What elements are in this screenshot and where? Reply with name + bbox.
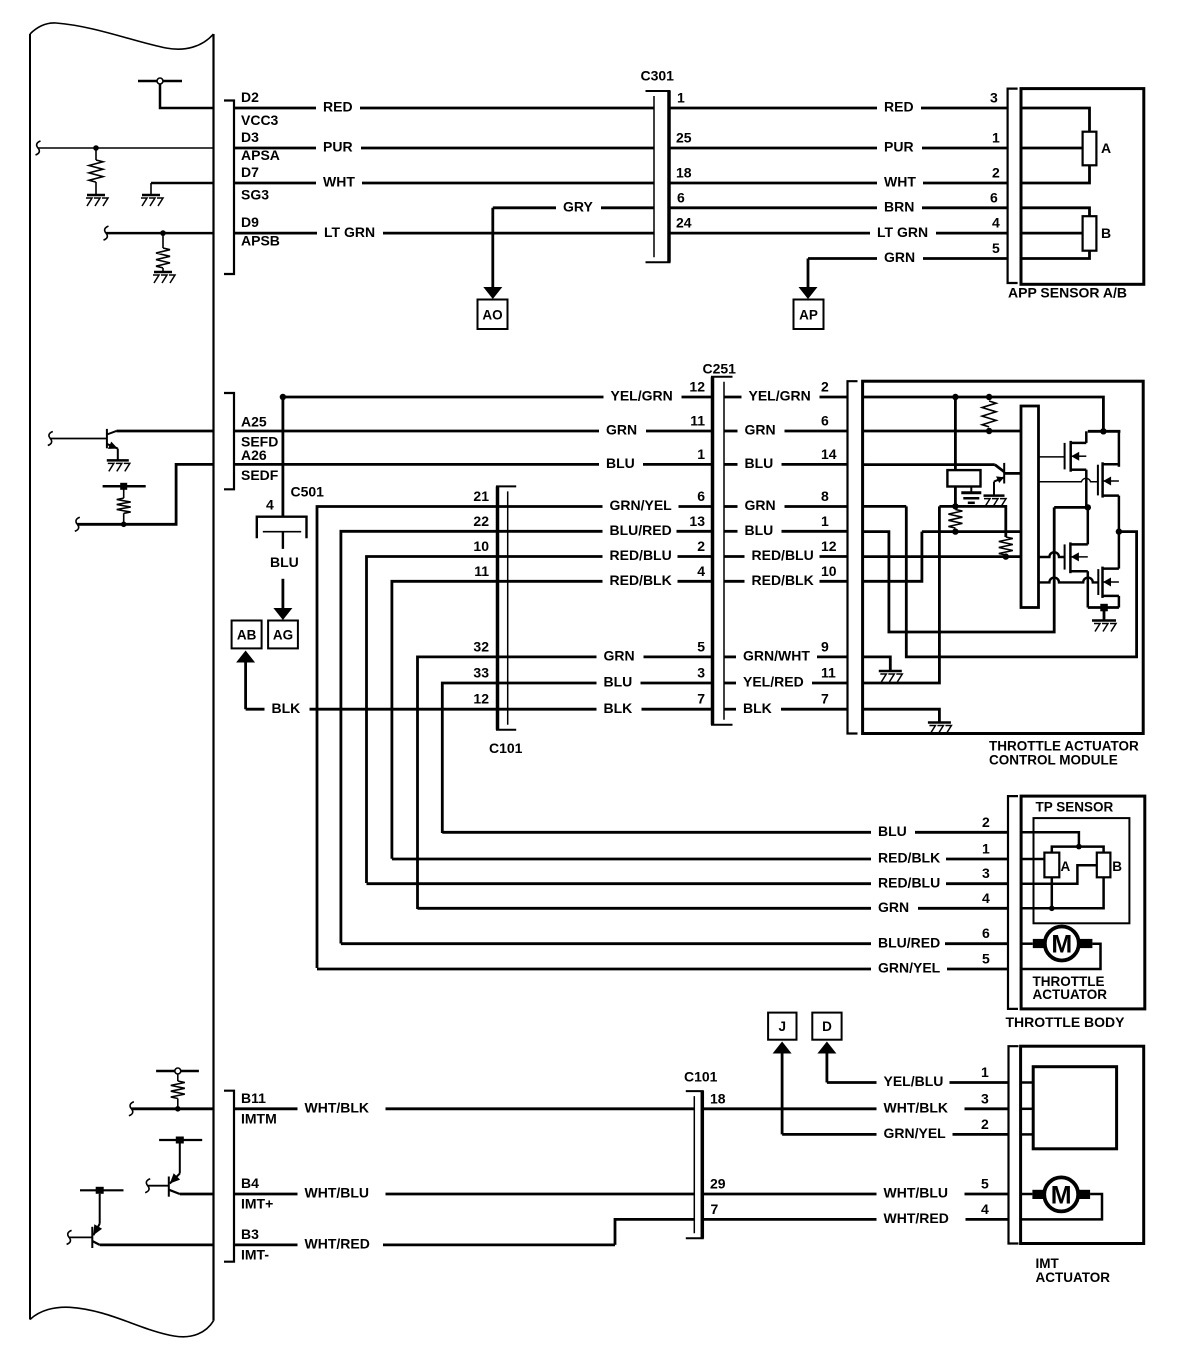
wire RED/BLK row link up to BLU right segment: [863, 532, 922, 582]
H-bridge bottom source bar: [1088, 606, 1119, 609]
wire break at APSB internal wire: [104, 226, 109, 240]
node junction source bar to ground: [1100, 604, 1108, 612]
svg-text:CONTROL MODULE: CONTROL MODULE: [989, 753, 1118, 768]
wire PUR: D3 to C301 pin 25: [234, 147, 316, 150]
svg-text:1: 1: [992, 130, 1000, 146]
wire GRN/YEL C101-21 to C251 pin 6: [508, 505, 603, 508]
throttle actuator motor: [1045, 927, 1079, 961]
arrowhead to AO: [483, 287, 502, 299]
connector bracket IMT actuator: [1009, 1046, 1019, 1243]
svg-text:BLK: BLK: [272, 700, 301, 716]
svg-text:2: 2: [821, 379, 829, 395]
arrow BLU wire down to AG: [281, 579, 284, 609]
wire GRN/YEL J to IMT pin 2: [782, 1133, 876, 1136]
resistor pull-down on APSB: [162, 233, 164, 248]
svg-text:4: 4: [266, 497, 274, 513]
svg-text:1: 1: [981, 1064, 989, 1080]
connector C101 (bottom): [686, 1090, 704, 1092]
wire RED/BLU C101-10 to C251 pin 2: [508, 555, 603, 558]
connector C101 (middle): [496, 485, 516, 487]
node junction motor left (M1 source / M3 drain): [1085, 504, 1091, 510]
svg-text:7: 7: [821, 691, 829, 707]
svg-text:BLU: BLU: [604, 674, 633, 690]
wire GRY: to C301 pin 6 and down to AO: [493, 206, 556, 209]
connector bracket ECM pins D2 D3 D7 D9: [224, 101, 234, 275]
IMT actuator box: [1021, 1046, 1144, 1243]
wire APSA internal (pin D3): [38, 147, 214, 149]
wire TP pin2 to pot tops: [1021, 832, 1079, 846]
svg-text:BLK: BLK: [604, 700, 633, 716]
resistor R3: [999, 537, 1013, 555]
wire break at IMTM internal wire: [129, 1102, 134, 1116]
svg-text:WHT/BLU: WHT/BLU: [305, 1185, 370, 1201]
wire TACM pin8 row into module: [863, 505, 907, 508]
node junction pin2 rail at resistor R1: [986, 394, 992, 400]
svg-text:BLU: BLU: [745, 522, 774, 538]
svg-text:6: 6: [677, 189, 685, 205]
svg-text:11: 11: [474, 563, 489, 579]
svg-text:IMTM: IMTM: [241, 1110, 277, 1126]
svg-text:18: 18: [710, 1090, 726, 1106]
wire APP pin 1 to potentiometer A wiper: [1021, 147, 1083, 150]
connector bracket throttle body: [1008, 796, 1018, 1009]
connector C251: [711, 376, 733, 378]
wire RED/BLU to TP sensor pin 3: [367, 882, 872, 885]
wire IMT pin5 to motor: [1021, 1193, 1033, 1196]
MOSFET M2 (high side right): [1097, 465, 1099, 496]
destination box AG: [268, 621, 298, 649]
svg-text:A26: A26: [241, 447, 267, 463]
svg-text:RED/BLK: RED/BLK: [752, 572, 814, 588]
svg-text:4: 4: [981, 1201, 989, 1217]
wire YEL/GRN from C501 node to C251 pin 12: [280, 394, 286, 400]
svg-text:D2: D2: [241, 89, 259, 105]
svg-text:ACTUATOR: ACTUATOR: [1036, 1270, 1111, 1285]
svg-text:B3: B3: [241, 1226, 259, 1242]
wire break at SEDF internal wire: [75, 517, 80, 531]
wire GRN C101 pin 32 corner down: [418, 657, 508, 909]
svg-text:C301: C301: [641, 68, 675, 84]
wire TACM pin14 BLU row to transistor base: [863, 463, 995, 466]
svg-text:12: 12: [473, 691, 489, 707]
node junction pin2 rail at predriver: [952, 394, 958, 400]
wire GRN to TP sensor pin 4: [418, 907, 872, 910]
wire APP pin 5 to potentiometer B bottom: [1021, 251, 1090, 259]
svg-text:C101: C101: [684, 1069, 718, 1085]
svg-text:5: 5: [992, 240, 1000, 256]
svg-text:5: 5: [982, 951, 990, 967]
svg-text:VCC3: VCC3: [241, 112, 279, 128]
svg-text:GRY: GRY: [563, 199, 593, 215]
wire TACM pin2 power rail to H-bridge top: [863, 397, 1104, 431]
wire gate M4 from driver block with humps: [1039, 578, 1099, 583]
wire WHT/BLK C101 to IMT pin 3: [702, 1107, 876, 1110]
node junction on APSB wire: [160, 230, 166, 236]
svg-text:M: M: [1051, 1181, 1072, 1209]
potentiometer B (TP sensor B): [1097, 853, 1111, 878]
wire GRN C251 to TACM pin 6: [724, 430, 738, 433]
svg-text:21: 21: [473, 488, 489, 504]
wire motor-right node down and across: [906, 506, 1136, 657]
svg-text:M: M: [1051, 931, 1072, 959]
svg-text:3: 3: [981, 1090, 989, 1106]
svg-text:PUR: PUR: [884, 139, 914, 155]
svg-text:1: 1: [697, 446, 705, 462]
svg-text:WHT: WHT: [323, 174, 355, 190]
MOSFET M3 (low side left): [1064, 544, 1066, 569]
svg-text:LT GRN: LT GRN: [324, 224, 375, 240]
wire TACM pin1 BLU right segment to driver block: [922, 530, 1021, 533]
svg-text:IMT: IMT: [1036, 1256, 1060, 1271]
ECM/PCM module torn bottom edge: [30, 1307, 214, 1337]
svg-text:9: 9: [821, 638, 829, 654]
wire IMT pin3 stub: [1021, 1108, 1034, 1111]
svg-text:A: A: [1101, 140, 1111, 156]
wire APSB internal (pin D9): [106, 232, 214, 235]
svg-text:C101: C101: [489, 740, 523, 756]
wire IMT pin1 stub: [1021, 1081, 1034, 1084]
wire APP pin 6 to potentiometer B top: [1021, 208, 1090, 216]
svg-text:AO: AO: [482, 307, 502, 322]
wire WHT: D7 to C301 pin 18: [234, 182, 316, 185]
node junction on SEDF wire: [121, 522, 127, 528]
svg-text:D7: D7: [241, 164, 259, 180]
wire GRN A25 to C251 pin 11: [234, 430, 599, 433]
wire GRN/YEL C101 pin 21 corner down: [317, 507, 508, 969]
wire TACM pin1 BLU row left segment: [863, 507, 1055, 632]
svg-text:3: 3: [982, 865, 990, 881]
node junction bottom of R3 on RED/BLU row: [1003, 553, 1009, 559]
ground H-bridge source: [1092, 619, 1116, 622]
ECM/PCM module left edge (wire): [29, 34, 31, 1320]
svg-text:B4: B4: [241, 1175, 259, 1191]
svg-text:GRN: GRN: [606, 422, 637, 438]
wire GRN/WHT C251 to TACM pin 9: [724, 656, 736, 659]
wire RED: D2 to C301 pin 1: [234, 107, 316, 110]
node junction drain bar: [1100, 428, 1106, 434]
svg-text:33: 33: [473, 665, 489, 681]
wire TACM pin7 BLK row to internal ground: [863, 709, 940, 722]
arrow up to D from YEL/BLU wire: [817, 1042, 836, 1054]
node junction pot A bottom on pin4 wire: [1049, 906, 1055, 912]
wire YEL/GRN C251 to TACM pin 2: [724, 396, 742, 399]
wire throttle pin6 to motor: [1021, 942, 1033, 945]
svg-text:D3: D3: [241, 129, 259, 145]
svg-text:2: 2: [981, 1116, 989, 1132]
wire LT GRN: C301 to APP sensor pin 4: [669, 232, 870, 235]
wire TACM pin12 RED/BLU row to driver block: [863, 555, 1021, 558]
wire RED/BLU C251 to TACM pin 12: [724, 555, 745, 558]
svg-text:GRN: GRN: [745, 422, 776, 438]
svg-text:C251: C251: [703, 361, 737, 377]
svg-text:IMT+: IMT+: [241, 1196, 273, 1212]
svg-text:12: 12: [689, 379, 705, 395]
svg-text:B: B: [1112, 859, 1122, 874]
wire BLU C251 to TACM pin 14: [724, 463, 738, 466]
wire WHT/BLU B4 to C101 pin 29: [234, 1193, 298, 1196]
resistor R2: [948, 510, 962, 528]
svg-text:32: 32: [473, 638, 489, 654]
svg-text:WHT/BLK: WHT/BLK: [305, 1100, 370, 1116]
svg-text:24: 24: [676, 215, 692, 231]
arrow up to J from GRN/YEL wire: [773, 1042, 792, 1054]
svg-text:10: 10: [821, 563, 837, 579]
connector C501 (2P) pin 4: [257, 517, 307, 539]
connector C301: [646, 90, 671, 92]
wire TACM pin9 row to internal ground: [863, 657, 891, 671]
connector bracket APP sensor: [1008, 89, 1018, 283]
svg-text:3: 3: [990, 90, 998, 106]
svg-text:BLU: BLU: [270, 554, 299, 570]
svg-text:18: 18: [676, 165, 692, 181]
svg-text:5: 5: [981, 1176, 989, 1192]
internal supply bar above SEDF resistor: [103, 485, 146, 488]
svg-text:J: J: [779, 1019, 787, 1034]
ground below APSA resistor: [87, 194, 105, 197]
destination box AP: [794, 300, 824, 330]
ground at Q3 emitter: [107, 459, 129, 462]
wire GRN: APP sensor pin 5 to AP: [808, 257, 877, 260]
svg-text:WHT/BLU: WHT/BLU: [884, 1185, 949, 1201]
destination box D: [812, 1013, 841, 1040]
svg-text:WHT/RED: WHT/RED: [305, 1236, 370, 1252]
TP sensor inner box: [1034, 818, 1130, 923]
transistor Q2 driving IMT- (PNP): [80, 1189, 124, 1191]
wire RED/BLK to TP sensor pin 1: [392, 858, 871, 861]
ground on pin7 row: [928, 721, 951, 724]
svg-text:7: 7: [711, 1201, 719, 1217]
svg-text:22: 22: [473, 513, 489, 529]
svg-text:D9: D9: [241, 214, 259, 230]
wire pin8/motor-right trace down to pin11 row: [863, 506, 940, 683]
svg-text:GRN: GRN: [604, 648, 635, 664]
svg-text:11: 11: [821, 665, 836, 681]
svg-text:2: 2: [982, 814, 990, 830]
svg-text:13: 13: [689, 513, 705, 529]
wire WHT/RED B3 to C101 pin 7 with jog: [234, 1244, 298, 1247]
wire BLU/RED to throttle actuator pin 6: [341, 942, 871, 945]
svg-text:B11: B11: [241, 1090, 266, 1106]
svg-text:RED/BLK: RED/BLK: [610, 572, 672, 588]
svg-text:SG3: SG3: [241, 187, 269, 203]
wire pin2 rail down through regulator to resistor chain: [954, 397, 957, 470]
svg-text:IMT-: IMT-: [241, 1246, 269, 1262]
svg-text:TP SENSOR: TP SENSOR: [1036, 800, 1114, 815]
chassis ground below regulator block: [970, 487, 972, 493]
svg-text:1: 1: [821, 513, 829, 529]
wire GRN C251 to TACM pin 8: [724, 505, 738, 508]
svg-text:GRN/YEL: GRN/YEL: [884, 1125, 947, 1141]
svg-text:ACTUATOR: ACTUATOR: [1033, 987, 1108, 1002]
wire PUR: C301 to APP sensor pin 1: [669, 147, 877, 150]
svg-text:BLU: BLU: [606, 455, 635, 471]
wire BLK C251 to TACM pin 7: [724, 708, 736, 711]
svg-text:1: 1: [982, 841, 990, 857]
wire throttle pin5 to motor return: [1021, 944, 1100, 969]
transistor Q3 driving SEFD (NPN to ground): [50, 438, 107, 440]
wire YEL/RED C251 to TACM pin 11: [724, 682, 736, 685]
node junction on APSA wire: [93, 145, 99, 151]
wire BLK from AB arrow to C101 pin 12: [246, 708, 265, 711]
resistor pull-up on IMTM: [177, 1074, 179, 1081]
resistor R1 pin2 to pin6 rail: [982, 401, 996, 427]
svg-text:WHT/RED: WHT/RED: [884, 1210, 949, 1226]
svg-text:AG: AG: [273, 627, 293, 642]
IMT actuator motor: [1044, 1177, 1078, 1211]
svg-text:WHT: WHT: [884, 174, 916, 190]
svg-text:A25: A25: [241, 414, 267, 430]
destination box J: [768, 1013, 796, 1040]
svg-text:GRN: GRN: [884, 249, 915, 265]
internal supply bar with terminal circle above B11 resistor: [156, 1070, 199, 1073]
wire APP pin 2 to potentiometer A bottom: [1021, 165, 1090, 183]
svg-text:RED/BLK: RED/BLK: [878, 850, 940, 866]
wire WHT/BLK B11 to C101 pin 18: [234, 1107, 298, 1110]
svg-text:8: 8: [821, 488, 829, 504]
svg-text:3: 3: [697, 665, 705, 681]
svg-text:BLK: BLK: [743, 700, 772, 716]
throttle body box: [1021, 796, 1145, 1009]
wire from VCC3 supply to pin D2: [160, 84, 214, 108]
svg-text:AP: AP: [799, 307, 818, 322]
transistor Q1 driving IMT+ (PNP): [159, 1139, 202, 1141]
ground on pin9 row: [879, 670, 902, 673]
svg-text:YEL/GRN: YEL/GRN: [749, 388, 811, 404]
destination box AB: [232, 621, 262, 649]
svg-text:6: 6: [697, 488, 705, 504]
svg-text:YEL/BLU: YEL/BLU: [884, 1073, 944, 1089]
wire RED/BLU C101 pin 10 corner down: [367, 557, 508, 884]
svg-text:RED: RED: [323, 99, 353, 115]
svg-text:4: 4: [697, 563, 705, 579]
wire IMT pin4 to motor return: [1021, 1194, 1102, 1219]
svg-text:AB: AB: [237, 627, 257, 642]
arrow up from BLK wire to AB: [236, 651, 255, 663]
wire BLU/RED C101-22 to C251 pin 13: [508, 530, 603, 533]
svg-text:4: 4: [982, 890, 990, 906]
svg-text:APP SENSOR A/B: APP SENSOR A/B: [1008, 285, 1127, 301]
svg-text:BRN: BRN: [884, 199, 914, 215]
potentiometer B (APP sensor B): [1083, 216, 1097, 251]
node junction R1 bottom on GRN row: [986, 428, 992, 434]
svg-text:GRN/YEL: GRN/YEL: [610, 497, 673, 513]
resistor pull-down on APSA: [95, 148, 97, 160]
MOSFET M4 (low side right): [1097, 569, 1099, 595]
wire SEDF internal (pin A26) with jog: [77, 464, 213, 524]
wire TP pin3 to pot B wiper: [1021, 865, 1097, 883]
ground on SG3: [150, 183, 152, 195]
potentiometer A (APP sensor A): [1083, 132, 1097, 166]
wire BLK from C101 pin 12 to C251 pin 7: [508, 708, 597, 711]
wire SEFD internal from Q3 to pin A25: [117, 430, 214, 433]
wire RED: C301 to APP sensor pin 3: [669, 107, 877, 110]
svg-text:YEL/RED: YEL/RED: [743, 674, 804, 690]
MOSFET M1 (high side left): [1064, 443, 1066, 470]
svg-text:GRN: GRN: [878, 899, 909, 915]
wire BLU C251 to TACM pin 1: [724, 530, 738, 533]
svg-text:YEL/GRN: YEL/GRN: [611, 388, 673, 404]
svg-text:RED/BLU: RED/BLU: [610, 547, 672, 563]
svg-text:GRN: GRN: [745, 497, 776, 513]
wire WHT/RED C101 to IMT pin 4: [702, 1218, 876, 1221]
wire YEL/BLU D to IMT pin 1: [827, 1081, 877, 1084]
node junction top of R2: [952, 503, 958, 509]
connector bracket ECM pins A25 A26: [224, 393, 234, 489]
wire LT GRN: D9 to C301 pin 24: [234, 232, 317, 235]
svg-text:14: 14: [821, 446, 837, 462]
wire gate M2 from driver block with hump: [1039, 478, 1098, 481]
svg-text:PUR: PUR: [323, 139, 353, 155]
wire WHT/BLU C101 to IMT pin 5: [702, 1193, 876, 1196]
wire gate M3 from driver block with hump: [1039, 552, 1065, 557]
wire RED/BLK C101 pin 11 corner down: [392, 581, 508, 859]
pot top bar: [1052, 847, 1104, 853]
svg-text:APSB: APSB: [241, 233, 280, 249]
transistor Q4 predriver (PNP): [1003, 463, 1005, 484]
svg-text:RED/BLU: RED/BLU: [878, 874, 940, 890]
svg-text:GRN/YEL: GRN/YEL: [878, 960, 941, 976]
wire IMT pin2 stub: [1021, 1133, 1034, 1136]
svg-text:WHT/BLK: WHT/BLK: [884, 1100, 949, 1116]
svg-text:11: 11: [690, 413, 705, 429]
wire TP pin4 to pot bottoms: [1021, 877, 1104, 908]
svg-text:RED: RED: [884, 99, 914, 115]
svg-text:THROTTLE BODY: THROTTLE BODY: [1006, 1014, 1126, 1030]
wire WHT: C301 to APP sensor pin 2: [669, 182, 877, 185]
wire IMTM internal (pin B11): [131, 1107, 213, 1110]
wire RED/BLK C101-11 to C251 pin 4: [508, 580, 603, 583]
wire TACM pin6 row to driver block: [863, 430, 1021, 433]
resistor pull-up on SEDF: [123, 513, 125, 524]
svg-text:BLU: BLU: [745, 455, 774, 471]
svg-text:C501: C501: [291, 484, 325, 500]
connector bracket ECM pins B11 B4 B3: [224, 1091, 234, 1262]
svg-text:1: 1: [677, 90, 685, 106]
wire BLU/RED C101 pin 22 corner down: [341, 531, 508, 943]
ECM/PCM module right edge (wire): [212, 34, 214, 1321]
ground below APSB resistor: [154, 271, 172, 274]
svg-text:6: 6: [982, 925, 990, 941]
svg-text:2: 2: [992, 165, 1000, 181]
svg-text:BLU/RED: BLU/RED: [878, 934, 940, 950]
potentiometer A (TP sensor A): [1044, 853, 1059, 878]
wire pin8 row jog to resistor chain: [939, 506, 1005, 537]
svg-text:A: A: [1061, 859, 1071, 874]
wire BLU C101-33 to C251 pin 3: [508, 682, 597, 685]
svg-text:29: 29: [710, 1176, 726, 1192]
wire from C501 connector up to YEL/GRN wire: [281, 397, 284, 516]
connector bracket throttle actuator control module: [848, 381, 858, 733]
wire break at APSA internal wire: [36, 141, 41, 155]
svg-text:BLU: BLU: [878, 823, 907, 839]
svg-text:RED/BLU: RED/BLU: [752, 547, 814, 563]
svg-text:D: D: [822, 1019, 832, 1034]
IMT solenoid block: [1033, 1067, 1116, 1149]
wire GRN/YEL to throttle actuator pin 5: [317, 968, 871, 971]
APP sensor A/B box: [1021, 89, 1144, 285]
node junction on IMTM wire: [175, 1106, 181, 1112]
wire APP pin 4 to potentiometer B wiper: [1021, 232, 1083, 235]
wire BLU C101 pin 33 corner down: [442, 683, 507, 833]
wire BLU A26 to C251 pin 1: [234, 463, 599, 466]
internal regulator block: [947, 470, 980, 486]
node junction bottom of R2 on BLU row: [952, 528, 958, 534]
svg-text:4: 4: [992, 215, 1000, 231]
ground at Q4 emitter: [984, 494, 1005, 497]
wire IMT+ internal (pin B4): [180, 1193, 214, 1196]
svg-text:SEDF: SEDF: [241, 467, 279, 483]
wire gate M1 from driver block: [1039, 456, 1065, 458]
